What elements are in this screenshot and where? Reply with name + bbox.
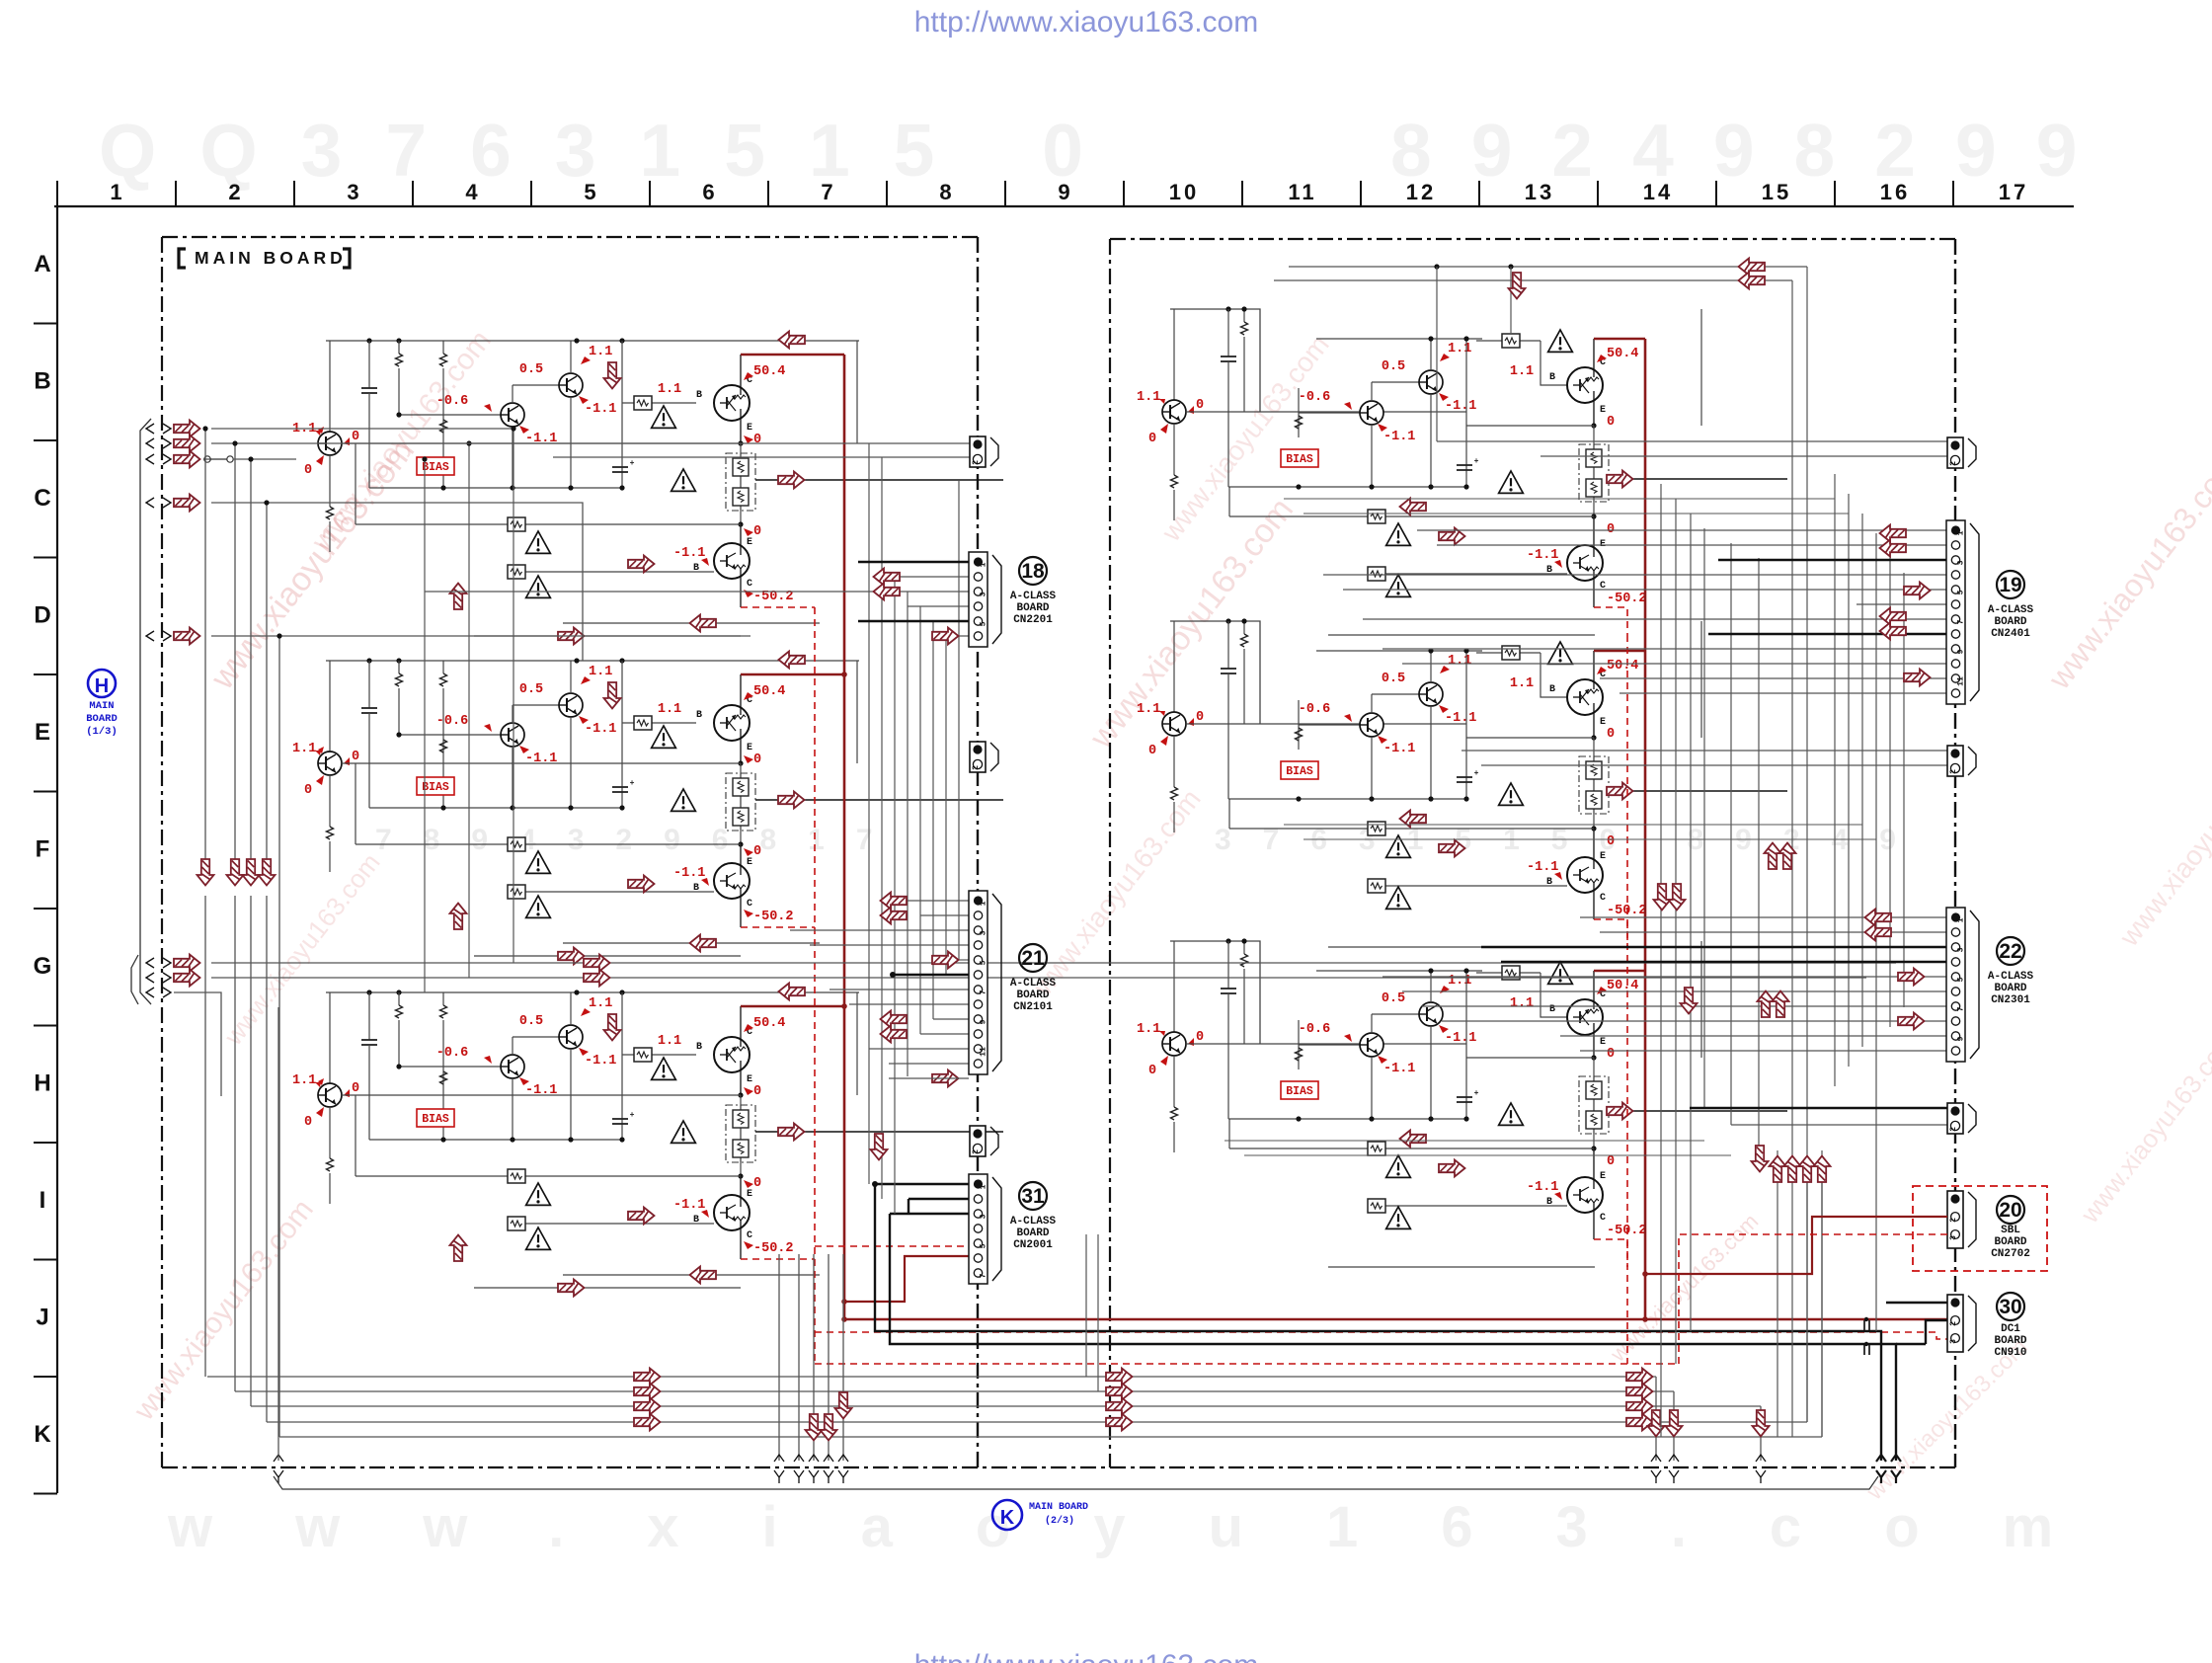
svg-text:31: 31 bbox=[1021, 1185, 1045, 1208]
amp block R3 bbox=[1170, 941, 1260, 1044]
signal arrows L2 bbox=[779, 652, 806, 669]
connector 2pin mid left bbox=[970, 742, 986, 772]
svg-text:QQ37631515 0: QQ37631515 0 bbox=[99, 109, 1127, 192]
BIAS label R2 bbox=[1281, 761, 1318, 779]
svg-text:2: 2 bbox=[1949, 1321, 1958, 1326]
svg-text:1: 1 bbox=[1957, 917, 1966, 922]
svg-text:BIAS: BIAS bbox=[422, 781, 449, 794]
resistor R1-R1 bbox=[1243, 309, 1245, 322]
svg-text:A-CLASS: A-CLASS bbox=[1988, 971, 2034, 983]
connector CN (2pin) top left bbox=[970, 436, 986, 467]
warning triangle L2 bbox=[526, 851, 551, 873]
svg-text:16: 16 bbox=[1880, 180, 1910, 204]
svg-text:www.xiaoyu163.com: www.xiaoyu163.com bbox=[167, 1495, 2136, 1559]
resistor R1-R6 bbox=[1229, 515, 1594, 517]
warning triangle R3 bbox=[1386, 1155, 1411, 1177]
svg-text:1.1: 1.1 bbox=[292, 1073, 316, 1088]
svg-text:-1.1: -1.1 bbox=[1527, 548, 1558, 563]
svg-text:-1.1: -1.1 bbox=[585, 402, 616, 417]
warning triangle L3 bbox=[526, 1183, 551, 1205]
svg-text:10: 10 bbox=[1169, 180, 1199, 204]
black bus to conn30 bbox=[875, 1184, 1881, 1461]
warning triangles L1 bbox=[652, 406, 676, 428]
svg-text:C: C bbox=[34, 485, 50, 512]
svg-text:BIAS: BIAS bbox=[422, 461, 449, 474]
power transistor R3-P2 bbox=[1593, 1148, 1595, 1177]
connector 30 bbox=[1947, 1295, 1963, 1352]
svg-text:C: C bbox=[747, 579, 752, 590]
wire inner top rail R1 bbox=[1316, 338, 1482, 340]
svg-text:J: J bbox=[36, 1305, 48, 1331]
wire inner top rail R3 bbox=[1316, 970, 1482, 972]
svg-text:-0.6: -0.6 bbox=[1299, 702, 1330, 717]
svg-text:50.4: 50.4 bbox=[1607, 347, 1638, 361]
svg-text:E: E bbox=[1600, 405, 1606, 416]
svg-text:1.1: 1.1 bbox=[589, 665, 612, 679]
svg-text:-1.1: -1.1 bbox=[585, 722, 616, 737]
wire inner bottom rail L3 bbox=[369, 1139, 622, 1141]
right top bus to 2pin bbox=[1437, 440, 1947, 442]
dark red rail L3 bbox=[741, 1005, 844, 1008]
warning triangles L3 bbox=[652, 1058, 676, 1079]
dark red rail L2 bbox=[741, 673, 844, 676]
svg-text:7: 7 bbox=[980, 1273, 988, 1278]
signal arrows L1 bbox=[779, 332, 806, 349]
wire inner bottom rail L1 bbox=[369, 487, 622, 489]
input wires B/C bbox=[211, 428, 513, 430]
red dashed rail R2 bbox=[1594, 919, 1627, 947]
svg-text:0: 0 bbox=[753, 844, 761, 859]
svg-text:BOARD: BOARD bbox=[1994, 983, 2026, 994]
svg-text:3: 3 bbox=[980, 930, 988, 935]
svg-text:0.5: 0.5 bbox=[1382, 359, 1405, 374]
svg-text:0: 0 bbox=[352, 1081, 359, 1096]
resistor pair L1 bbox=[726, 453, 755, 511]
svg-text:-1.1: -1.1 bbox=[1445, 1031, 1476, 1046]
transistor R3-Q3 bbox=[1419, 1002, 1443, 1026]
dark red rail L2/L3 joins bbox=[843, 673, 846, 676]
capacitor L1-C1 bbox=[368, 341, 370, 388]
svg-text:0: 0 bbox=[753, 433, 761, 447]
input group G row bbox=[131, 955, 138, 1004]
svg-text:5: 5 bbox=[1957, 977, 1966, 982]
red dashed rail right vertical bbox=[1626, 635, 1628, 1364]
resistor L3-R3 bbox=[440, 1071, 447, 1084]
svg-text:2: 2 bbox=[1949, 1127, 1958, 1132]
svg-text:3: 3 bbox=[980, 1214, 988, 1219]
warning triangles R1 bbox=[1548, 330, 1573, 352]
transistor R1-Q1 bbox=[1173, 309, 1175, 400]
bottom edge crossings left bbox=[274, 1455, 283, 1462]
transistor R2-Q3 bbox=[1419, 682, 1443, 706]
left board outline bbox=[162, 236, 978, 238]
svg-text:1.1: 1.1 bbox=[1448, 974, 1471, 989]
svg-text:BOARD: BOARD bbox=[1994, 1335, 2026, 1347]
svg-text:2: 2 bbox=[972, 1149, 981, 1154]
svg-text:B: B bbox=[34, 368, 50, 395]
power transistor L2-P2 bbox=[740, 844, 742, 863]
svg-text:0: 0 bbox=[1196, 710, 1204, 725]
resistor L2-R1 bbox=[398, 661, 400, 673]
connector 31 bbox=[969, 1174, 987, 1284]
Y collector line bbox=[274, 1476, 1878, 1489]
mid right arrow clusters bbox=[1765, 843, 1781, 870]
BIAS label L2 bbox=[417, 777, 454, 795]
svg-text:0.5: 0.5 bbox=[519, 682, 543, 697]
svg-text:E: E bbox=[1600, 1171, 1606, 1182]
svg-text:BOARD: BOARD bbox=[86, 713, 118, 725]
resistor R2-R5 base bbox=[1476, 652, 1540, 654]
svg-text:1.1: 1.1 bbox=[658, 702, 681, 717]
dark red branch conn31 pin6 bbox=[844, 1256, 969, 1302]
svg-text:7: 7 bbox=[1957, 1006, 1966, 1011]
svg-text:+: + bbox=[630, 779, 635, 788]
svg-text:A-CLASS: A-CLASS bbox=[1010, 978, 1057, 990]
svg-text:0: 0 bbox=[753, 1176, 761, 1191]
svg-text:0: 0 bbox=[753, 524, 761, 539]
svg-text:DC1: DC1 bbox=[2001, 1323, 2020, 1335]
svg-text:20: 20 bbox=[1999, 1199, 2021, 1222]
svg-text:0.5: 0.5 bbox=[519, 362, 543, 377]
svg-text:0.5: 0.5 bbox=[1382, 991, 1405, 1006]
svg-text:A-CLASS: A-CLASS bbox=[1988, 604, 2034, 616]
svg-text:1.1: 1.1 bbox=[1510, 996, 1534, 1011]
svg-text:6: 6 bbox=[702, 180, 717, 204]
caps at conn30 bbox=[1863, 1320, 1865, 1330]
red dashed rail R1 bbox=[1594, 607, 1627, 635]
svg-text:K: K bbox=[34, 1421, 51, 1448]
svg-text:5: 5 bbox=[980, 621, 988, 626]
input bracket (long) bbox=[140, 419, 151, 1004]
svg-text:0: 0 bbox=[1607, 415, 1615, 430]
svg-text:0: 0 bbox=[1607, 727, 1615, 742]
resistor pair R1 bbox=[1579, 444, 1609, 502]
red dashed rail L1 bbox=[741, 606, 815, 608]
resistor L3-R4 bbox=[440, 1109, 447, 1122]
resistor L1-R4 bbox=[440, 457, 447, 470]
svg-text:CN2001: CN2001 bbox=[1013, 1239, 1053, 1251]
svg-text:3: 3 bbox=[1957, 560, 1966, 565]
resistor L2-R3 bbox=[440, 740, 447, 752]
red dashed rail left vertical bbox=[814, 607, 816, 1364]
svg-text:7: 7 bbox=[980, 990, 988, 994]
svg-text:-0.6: -0.6 bbox=[1299, 1022, 1330, 1037]
resistor L1-R6 bbox=[355, 523, 741, 525]
resistor L2-R7 base bbox=[516, 891, 714, 893]
svg-text:11: 11 bbox=[980, 1047, 988, 1057]
svg-text:17: 17 bbox=[1999, 180, 2028, 204]
svg-text:1.1: 1.1 bbox=[1510, 364, 1534, 379]
resistor L1-R1 bbox=[398, 341, 400, 354]
svg-text:-0.6: -0.6 bbox=[436, 394, 468, 409]
capacitor R3-C1 bbox=[1227, 941, 1229, 989]
transistor L1-Q3 bbox=[559, 373, 583, 397]
svg-text:C: C bbox=[1600, 893, 1606, 904]
H circle bbox=[88, 670, 116, 697]
svg-text:MAIN: MAIN bbox=[89, 700, 114, 712]
conn30 wires bbox=[1886, 1302, 1947, 1304]
connector 19 bbox=[1946, 520, 1965, 704]
svg-text:78943296817: 78943296817 bbox=[375, 824, 905, 856]
bottom edge crossings right bbox=[1651, 1455, 1661, 1462]
resistor R3-R7 base bbox=[1377, 1205, 1567, 1207]
svg-text:7: 7 bbox=[1957, 619, 1966, 624]
warning triangles R2 bbox=[1548, 642, 1573, 664]
svg-text:3: 3 bbox=[347, 180, 361, 204]
svg-text:11: 11 bbox=[1288, 180, 1316, 204]
dark red rail L1 bbox=[741, 354, 844, 356]
signal arrows R3 bbox=[1607, 1103, 1633, 1120]
svg-text:1.1: 1.1 bbox=[292, 742, 316, 756]
svg-text:1.1: 1.1 bbox=[658, 1034, 681, 1049]
capacitor L3-C2 polarized bbox=[612, 1118, 628, 1120]
svg-text:I: I bbox=[39, 1187, 46, 1214]
svg-text:-1.1: -1.1 bbox=[1383, 742, 1415, 756]
svg-text:B: B bbox=[696, 390, 702, 401]
svg-text:9: 9 bbox=[1957, 1036, 1966, 1041]
transistor R1-Q3 bbox=[1419, 370, 1443, 394]
svg-text:5: 5 bbox=[980, 1243, 988, 1248]
svg-text:1.1: 1.1 bbox=[1137, 1022, 1160, 1037]
transistor L3-Q3 bbox=[559, 1025, 583, 1049]
svg-text:BOARD: BOARD bbox=[1016, 602, 1049, 614]
svg-text:22: 22 bbox=[1999, 940, 2021, 963]
ruler left column bbox=[56, 206, 58, 1493]
resistor L2-R4 bbox=[440, 777, 447, 790]
svg-text:7: 7 bbox=[821, 180, 835, 204]
svg-text:H: H bbox=[34, 1070, 50, 1097]
svg-text:2: 2 bbox=[1949, 461, 1958, 466]
svg-text:-1.1: -1.1 bbox=[525, 752, 557, 766]
svg-text:A-CLASS: A-CLASS bbox=[1010, 591, 1057, 602]
svg-text:2: 2 bbox=[228, 180, 243, 204]
svg-text:-1.1: -1.1 bbox=[673, 1198, 705, 1213]
capacitor L1-C2 polarized bbox=[612, 466, 628, 468]
dark red rail right board vertical bbox=[1644, 339, 1647, 1319]
svg-text:1: 1 bbox=[980, 562, 988, 567]
svg-text:E: E bbox=[747, 423, 752, 434]
svg-text:-1.1: -1.1 bbox=[1383, 430, 1415, 444]
transistor L2-Q3 bbox=[559, 693, 583, 717]
svg-text:2: 2 bbox=[972, 765, 981, 770]
svg-text:http://www.xiaoyu163.com: http://www.xiaoyu163.com bbox=[914, 1649, 1259, 1663]
connector 18 bbox=[969, 552, 987, 647]
svg-text:4: 4 bbox=[465, 180, 480, 204]
svg-text:2: 2 bbox=[972, 460, 981, 465]
MAIN BOARD title bbox=[179, 249, 186, 268]
svg-text:1.1: 1.1 bbox=[1510, 676, 1534, 691]
svg-text:BIAS: BIAS bbox=[422, 1113, 449, 1126]
svg-text:-1.1: -1.1 bbox=[585, 1054, 616, 1069]
svg-text:E: E bbox=[747, 1074, 752, 1085]
svg-text:E: E bbox=[1600, 851, 1606, 862]
svg-text:BOARD: BOARD bbox=[1994, 1236, 2026, 1248]
svg-text:+: + bbox=[1474, 1089, 1479, 1098]
svg-text:5: 5 bbox=[1957, 590, 1966, 594]
svg-text:0: 0 bbox=[352, 430, 359, 444]
svg-text:3: 3 bbox=[980, 592, 988, 596]
svg-text:1.1: 1.1 bbox=[658, 382, 681, 397]
connector 2pin mid right bbox=[1947, 746, 1963, 776]
amp block R1 bbox=[1170, 309, 1260, 412]
BIAS label R3 bbox=[1281, 1081, 1318, 1099]
capacitor R2-C1 bbox=[1227, 621, 1229, 669]
svg-text:E: E bbox=[747, 1189, 752, 1200]
svg-text:-0.6: -0.6 bbox=[436, 714, 468, 729]
middle gap verticals bbox=[1085, 1234, 1087, 1377]
red dashed rail L2 bbox=[741, 926, 815, 928]
resistor L2-R2 bbox=[442, 661, 444, 673]
amp block L3 bbox=[326, 991, 859, 993]
right board horizontals to conn19/22 pins bbox=[1417, 529, 1946, 531]
svg-text:18: 18 bbox=[1021, 560, 1045, 583]
resistor L1-R2 bbox=[442, 341, 444, 354]
svg-text:SBL: SBL bbox=[2001, 1225, 2020, 1236]
BIAS label L1 bbox=[417, 457, 454, 475]
svg-text:8: 8 bbox=[939, 180, 954, 204]
svg-text:30: 30 bbox=[1999, 1296, 2021, 1318]
svg-text:CN910: CN910 bbox=[1994, 1347, 2026, 1359]
svg-text:+: + bbox=[630, 1111, 635, 1120]
left board horizontals to conn pins bbox=[895, 576, 969, 578]
svg-text:12: 12 bbox=[1406, 180, 1436, 204]
resistor L2-R6 bbox=[355, 843, 741, 845]
svg-text:C: C bbox=[747, 899, 752, 910]
svg-text:1.1: 1.1 bbox=[1448, 342, 1471, 356]
signal arrows R1 bbox=[1607, 471, 1633, 488]
svg-text:BIAS: BIAS bbox=[1286, 765, 1313, 778]
R1 top-right arrows bbox=[1739, 259, 1766, 276]
svg-text:1: 1 bbox=[1957, 530, 1966, 535]
wire inner top rail R2 bbox=[1316, 650, 1482, 652]
svg-text:-1.1: -1.1 bbox=[673, 546, 705, 561]
svg-text:E: E bbox=[747, 537, 752, 548]
power transistor R1-P2 bbox=[1593, 516, 1595, 545]
K circle bbox=[992, 1500, 1022, 1530]
transistor R1-Q2 bbox=[1360, 401, 1383, 425]
svg-text:-1.1: -1.1 bbox=[1445, 399, 1476, 414]
svg-text:15: 15 bbox=[1762, 180, 1791, 204]
svg-text:0: 0 bbox=[753, 752, 761, 767]
transistor R2-Q2 bbox=[1360, 713, 1383, 737]
svg-text:C: C bbox=[747, 1230, 752, 1241]
svg-text:0: 0 bbox=[304, 783, 312, 798]
svg-text:C: C bbox=[1600, 1213, 1606, 1224]
svg-text:CN2101: CN2101 bbox=[1013, 1001, 1053, 1013]
svg-text:-1.1: -1.1 bbox=[1527, 1180, 1558, 1195]
svg-text:0: 0 bbox=[1148, 432, 1156, 446]
resistor L1-R3 bbox=[440, 420, 447, 433]
bundle drop arrows right bbox=[1648, 1410, 1665, 1437]
resistor L3-R1 bbox=[398, 992, 400, 1005]
svg-text:H: H bbox=[95, 675, 109, 697]
svg-text:13: 13 bbox=[1525, 180, 1554, 204]
red dashed box conn20 bbox=[1913, 1186, 2047, 1271]
svg-text:+: + bbox=[630, 459, 635, 468]
svg-text:BIAS: BIAS bbox=[1286, 1085, 1313, 1098]
svg-text:-1.1: -1.1 bbox=[1527, 860, 1558, 875]
svg-text:3: 3 bbox=[1949, 1339, 1958, 1344]
svg-text:-0.6: -0.6 bbox=[436, 1046, 468, 1061]
svg-text:0.5: 0.5 bbox=[1382, 672, 1405, 686]
svg-text:G: G bbox=[34, 953, 52, 980]
dark red rail left->conn30 bbox=[844, 1318, 1947, 1321]
red dashed rail bottom horizontal to conn30 bbox=[815, 1332, 1947, 1339]
svg-text:-0.6: -0.6 bbox=[1299, 390, 1330, 405]
dark red rail left board vertical bbox=[843, 355, 846, 1319]
warning triangle R2 bbox=[1386, 835, 1411, 857]
svg-text:21: 21 bbox=[1021, 947, 1045, 970]
svg-text:-50.2: -50.2 bbox=[1607, 592, 1647, 606]
right board bus verticals bbox=[1660, 484, 1662, 1437]
svg-text:1.1: 1.1 bbox=[1448, 654, 1471, 669]
svg-text:CN2201: CN2201 bbox=[1013, 614, 1053, 626]
dark red rail R2 bbox=[1594, 650, 1645, 653]
svg-text:E: E bbox=[35, 719, 50, 746]
amp block L1 bbox=[326, 340, 859, 342]
transistor R3-Q2 bbox=[1360, 1033, 1383, 1057]
resistor pair R3 bbox=[1579, 1076, 1609, 1134]
capacitor L3-C1 bbox=[368, 992, 370, 1040]
conn20 red wires bbox=[1645, 1217, 1947, 1274]
red dashed conn31 feed bbox=[815, 1245, 969, 1247]
connector 21 bbox=[969, 891, 987, 1074]
svg-text:-1.1: -1.1 bbox=[1383, 1062, 1415, 1076]
resistor R1-R5 base bbox=[1476, 340, 1540, 342]
input riser wires col 3-5 bbox=[513, 429, 514, 963]
svg-text:(1/3): (1/3) bbox=[86, 726, 118, 738]
svg-text:0: 0 bbox=[1607, 1154, 1615, 1169]
conn area arrows right bbox=[1880, 525, 1907, 542]
svg-text:CN2401: CN2401 bbox=[1991, 628, 2030, 640]
power transistor L3-P2 bbox=[740, 1176, 742, 1195]
resistor R2-R6 bbox=[1229, 828, 1594, 830]
BIAS label R1 bbox=[1281, 449, 1318, 467]
svg-text:BOARD: BOARD bbox=[1016, 990, 1049, 1001]
svg-text:14: 14 bbox=[1643, 180, 1673, 204]
svg-text:E: E bbox=[747, 857, 752, 868]
svg-text:E: E bbox=[1600, 717, 1606, 728]
signal arrows L3 bbox=[779, 984, 806, 1000]
transistor L2-Q1 bbox=[329, 661, 331, 752]
amp block R2 bbox=[1170, 621, 1260, 724]
connector 2pin low left bbox=[970, 1126, 986, 1156]
svg-text:11: 11 bbox=[1957, 676, 1966, 686]
svg-text:0: 0 bbox=[304, 463, 312, 478]
svg-text:B: B bbox=[696, 710, 702, 721]
svg-text:0: 0 bbox=[1607, 1047, 1615, 1062]
BIAS label L3 bbox=[417, 1109, 454, 1127]
svg-text:A: A bbox=[34, 251, 50, 277]
svg-text:BOARD: BOARD bbox=[1994, 616, 2026, 628]
svg-text:50.4: 50.4 bbox=[753, 684, 785, 699]
svg-text:F: F bbox=[36, 836, 50, 863]
svg-text:-50.2: -50.2 bbox=[753, 1241, 794, 1256]
svg-text:1.1: 1.1 bbox=[1137, 702, 1160, 717]
resistor R2-R7 base bbox=[1377, 885, 1567, 887]
svg-text:-1.1: -1.1 bbox=[525, 1083, 557, 1098]
svg-text:CN2301: CN2301 bbox=[1991, 994, 2030, 1006]
warning triangle L1 bbox=[526, 531, 551, 553]
capacitor R1-C1 bbox=[1227, 309, 1229, 356]
warning triangles L2 bbox=[652, 726, 676, 748]
svg-text:E: E bbox=[747, 743, 752, 753]
svg-text:50.4: 50.4 bbox=[753, 1016, 785, 1031]
svg-text:9: 9 bbox=[980, 1019, 988, 1024]
svg-text:BOARD: BOARD bbox=[1016, 1227, 1049, 1239]
bundle arrows bbox=[634, 1369, 661, 1386]
svg-text:1: 1 bbox=[110, 180, 124, 204]
